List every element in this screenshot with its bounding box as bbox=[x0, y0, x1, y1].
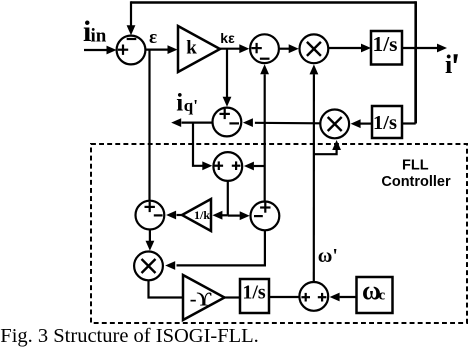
summing junction S3 bbox=[213, 108, 242, 137]
wire omega-prime branch to M2 bbox=[314, 140, 341, 154]
wire S6 to multiplier M3 bbox=[165, 230, 265, 270]
svg-text:c: c bbox=[379, 288, 386, 304]
label i_in bbox=[83, 15, 107, 48]
wire omega-c to S7 bbox=[330, 293, 357, 302]
wire i_q branch to sum S4 bbox=[193, 123, 212, 171]
wire S4 output down bbox=[227, 181, 229, 216]
wire output down branch bbox=[402, 48, 416, 124]
wire to gain 1/K bbox=[212, 211, 227, 220]
svg-text:1/s: 1/s bbox=[373, 112, 397, 134]
wire omega-prime up bbox=[310, 64, 319, 282]
summing junction S7 bbox=[299, 282, 328, 311]
wire I1 to output bbox=[402, 44, 447, 53]
gain block K bbox=[178, 26, 220, 72]
wire S1 to gain K bbox=[146, 45, 178, 54]
wire qv branch to S4 right bbox=[244, 162, 265, 171]
wire K to sum S2 bbox=[220, 44, 249, 53]
wire qv branch vertical bbox=[260, 64, 269, 201]
svg-text:ε: ε bbox=[149, 27, 157, 48]
svg-text:in: in bbox=[91, 26, 107, 47]
label epsilon bbox=[149, 27, 157, 48]
wire feedback drop to sum S1 bbox=[127, 1, 136, 35]
summing junction S1 bbox=[117, 36, 146, 65]
svg-text:kε: kε bbox=[220, 30, 235, 46]
gain block -Gamma bbox=[183, 275, 225, 320]
wire epsilon branch down bbox=[148, 50, 150, 202]
wire input i_in bbox=[84, 46, 117, 55]
svg-text:Controller: Controller bbox=[381, 174, 451, 190]
multiplier M1 bbox=[300, 34, 329, 63]
gain block 1/K bbox=[182, 199, 211, 231]
multiplier M3 bbox=[134, 252, 163, 281]
wire I2 to multiplier M2 bbox=[351, 119, 372, 128]
svg-text:1/s: 1/s bbox=[372, 32, 397, 56]
label i-prime bbox=[445, 50, 458, 79]
wire M3 to gain Gamma bbox=[149, 280, 183, 297]
svg-text:ω': ω' bbox=[318, 245, 338, 267]
wire 1/K to sum S5 bbox=[166, 211, 182, 220]
wire I3 to sum S7 bbox=[269, 296, 299, 298]
wire M1 to integrator I1 bbox=[329, 44, 371, 53]
label FLL Controller bbox=[381, 157, 451, 190]
svg-text:i: i bbox=[176, 89, 183, 116]
wire M2 to sum S3 bbox=[243, 118, 320, 127]
svg-text:k: k bbox=[186, 38, 197, 59]
wire k-epsilon branch down bbox=[223, 49, 232, 107]
integrator block I3 1/s bbox=[240, 279, 269, 313]
wire top feedback bbox=[131, 1, 416, 123]
summing junction S2 bbox=[250, 34, 279, 63]
integrator block I2 1/s bbox=[372, 106, 402, 138]
label k-epsilon bbox=[220, 30, 235, 46]
svg-text:1/s: 1/s bbox=[242, 282, 266, 304]
summing junction S4 bbox=[213, 152, 242, 181]
wire Gamma to integrator I3 bbox=[225, 296, 241, 298]
label i_q-prime bbox=[176, 89, 198, 116]
svg-text:i: i bbox=[445, 50, 452, 79]
frequency block omega-c bbox=[357, 276, 393, 313]
svg-text:-ϒ: -ϒ bbox=[190, 289, 212, 311]
integrator block I1 1/s bbox=[371, 31, 402, 65]
multiplier M2 bbox=[320, 110, 349, 139]
svg-text:q': q' bbox=[184, 96, 198, 115]
wire S5 to multiplier M3 bbox=[146, 230, 155, 251]
svg-text:Fig. 3 Structure of ISOGI-FLL.: Fig. 3 Structure of ISOGI-FLL. bbox=[0, 325, 259, 347]
wire S3 output i_q bbox=[171, 118, 212, 127]
wire S2 to multiplier M1 bbox=[280, 44, 299, 53]
summing junction S6 bbox=[251, 202, 280, 231]
caption Fig. 3 bbox=[0, 325, 259, 347]
wire to sum S6 bbox=[228, 211, 250, 220]
summing junction S5 bbox=[136, 201, 165, 230]
svg-text:FLL: FLL bbox=[402, 157, 429, 173]
label omega-prime bbox=[318, 245, 338, 267]
svg-text:1/k: 1/k bbox=[194, 208, 210, 222]
label k bbox=[186, 38, 197, 59]
FLL controller dashed boundary bbox=[91, 144, 467, 323]
